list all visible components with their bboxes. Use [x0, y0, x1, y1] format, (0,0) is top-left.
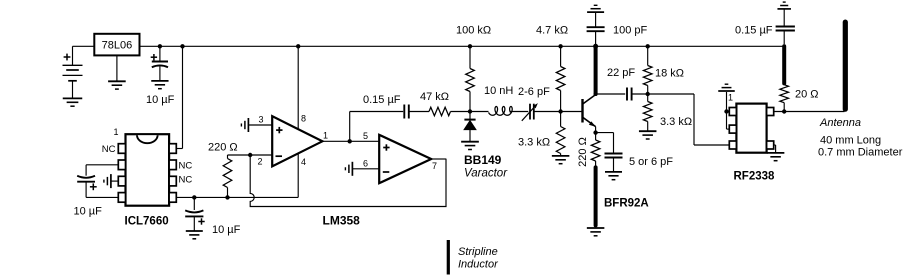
svg-text:0.15 µF: 0.15 µF: [363, 94, 401, 106]
ground RF2338 top: [718, 90, 735, 92]
node rail R4: [558, 44, 562, 48]
ground battery: [63, 97, 83, 99]
node rail R7: [646, 44, 650, 48]
node C3: [192, 195, 196, 199]
svg-text:8: 8: [301, 114, 306, 124]
U1A minus marker: [276, 155, 283, 157]
svg-text:47 kΩ: 47 kΩ: [420, 91, 449, 103]
wire emitter to C8: [596, 132, 614, 134]
ICL7660 left pins: [118, 144, 125, 154]
svg-text:RF2338: RF2338: [734, 171, 776, 183]
svg-text:NC: NC: [179, 160, 193, 171]
wire RF2338 pin gnd right: [774, 144, 776, 146]
svg-text:7: 7: [432, 161, 437, 171]
resistor R3 100k: [469, 46, 471, 68]
svg-text:1: 1: [728, 93, 733, 103]
IC U3 ICL7660 body: [126, 134, 170, 206]
IC U4 RF2338 body: [736, 104, 766, 153]
svg-text:40 mm Long: 40 mm Long: [820, 134, 881, 146]
battery B1: [72, 46, 74, 65]
wire negative supply from ICL7660 pin5: [176, 196, 298, 198]
capacitor C6 100pF: [595, 12, 597, 27]
battery plus label: [64, 56, 71, 58]
wire U1B pin6 to ground: [352, 168, 379, 170]
resistor R5 3.3k: [560, 112, 562, 127]
ground 0.15uF top: [777, 8, 791, 10]
wire C4 to R2: [409, 111, 429, 113]
trimmer capacitor C5 2-6pF: [529, 104, 531, 120]
op-amp U1B LM358: [379, 135, 431, 183]
svg-text:10 nH: 10 nH: [484, 85, 513, 97]
wire divider to RF2338 input: [693, 94, 695, 145]
ground C6 top: [587, 11, 604, 13]
wire negative rail to op-amp pin4: [297, 153, 299, 197]
svg-text:NC: NC: [102, 144, 116, 155]
wire ICL7660 pin2 to C1: [86, 164, 118, 166]
svg-text:10 µF: 10 µF: [74, 206, 103, 218]
regulator U2 78L06: [94, 34, 139, 56]
svg-text:18 kΩ: 18 kΩ: [655, 68, 684, 80]
resistor R2 47k: [429, 107, 451, 116]
C2 plus label: [151, 56, 157, 58]
svg-text:2-6 pF: 2-6 pF: [518, 86, 550, 98]
wire U1B output pin7: [431, 158, 446, 160]
svg-text:NC: NC: [179, 175, 193, 186]
wire feedback from pin7 with hop: [250, 155, 446, 207]
svg-text:5 or 6 pF: 5 or 6 pF: [629, 156, 673, 168]
svg-text:BB149: BB149: [464, 153, 502, 167]
node emitter: [593, 130, 597, 134]
svg-text:BFR92A: BFR92A: [604, 198, 649, 210]
capacitor C1 10uF: [77, 176, 95, 178]
svg-text:1: 1: [323, 131, 328, 141]
wire rail to ICL7660 pin 8: [182, 46, 184, 148]
varactor D1 BB149: [469, 112, 471, 120]
wire top supply rail: [140, 45, 785, 47]
wire R1 to op-amp pin2: [228, 154, 273, 156]
svg-text:1: 1: [113, 127, 118, 137]
ground R5: [552, 155, 570, 157]
node rail pin8: [296, 44, 300, 48]
wire R2 to node A: [451, 111, 471, 113]
node feedback pin2: [248, 153, 252, 157]
node rail-C2: [158, 44, 162, 48]
node rail stripline: [593, 44, 598, 49]
svg-text:0.7 mm Diameter: 0.7 mm Diameter: [818, 147, 903, 159]
transistor Q1 BFR92A: [581, 99, 583, 123]
node A varactor node: [468, 109, 472, 113]
U1B minus marker: [383, 171, 390, 173]
capacitor C4 0.15uF: [403, 105, 405, 119]
ground emitter stripline: [587, 227, 605, 229]
wire emitter node: [595, 127, 597, 133]
svg-text:10 µF: 10 µF: [146, 94, 175, 106]
wire regulator ground pin: [116, 55, 118, 81]
svg-text:220 Ω: 220 Ω: [577, 137, 589, 167]
wire U1A pin8 to rail: [297, 46, 299, 129]
wire RF2338 output pin: [774, 111, 845, 113]
ground R8: [639, 130, 657, 132]
U1A plus marker: [276, 129, 282, 131]
svg-text:22 pF: 22 pF: [607, 67, 635, 79]
svg-text:78L06: 78L06: [102, 40, 133, 52]
svg-text:4.7 kΩ: 4.7 kΩ: [536, 25, 568, 37]
node R1 bottom: [225, 195, 229, 199]
svg-text:100 pF: 100 pF: [613, 25, 648, 37]
U1B plus marker: [383, 147, 389, 149]
inductor L1 10nH: [470, 111, 489, 113]
node base divider: [558, 109, 562, 113]
resistor R1 220ohm: [227, 188, 229, 198]
wire C7 to divider node: [632, 93, 694, 95]
wire ICL7660 pin3 to ground: [111, 180, 118, 182]
svg-text:220 Ω: 220 Ω: [208, 142, 238, 154]
svg-text:100 kΩ: 100 kΩ: [456, 25, 491, 37]
svg-text:3: 3: [258, 114, 263, 124]
svg-text:4: 4: [301, 157, 306, 167]
resistor R8 3.3k: [647, 94, 649, 102]
svg-text:20 Ω: 20 Ω: [795, 89, 819, 101]
node U1A output: [348, 139, 352, 143]
ground ICL7660 pin3: [110, 174, 112, 188]
resistor R4 4.7k: [560, 46, 562, 66]
capacitor C8 5or6pF: [605, 153, 623, 155]
ground C8: [605, 171, 622, 173]
wire C1 to ICL7660 pin4: [85, 182, 87, 198]
stripline legend bar: [447, 240, 450, 275]
RF2338 left pins: [729, 108, 736, 116]
svg-text:Stripline: Stripline: [458, 246, 498, 258]
stripline inductor output: [782, 46, 786, 83]
wire U1A output to U1B input: [322, 140, 379, 142]
resistor R9 20ohm: [780, 85, 789, 103]
C1 plus label: [90, 186, 97, 188]
capacitor C7 22pF: [626, 88, 628, 101]
svg-text:2: 2: [257, 157, 262, 167]
ground C2: [151, 80, 168, 82]
ground C3: [186, 230, 203, 232]
node rail R3: [468, 44, 472, 48]
svg-text:ICL7660: ICL7660: [125, 215, 169, 227]
ICL7660 right pins: [169, 144, 176, 154]
svg-text:5: 5: [363, 131, 368, 141]
wire collector to C7: [596, 93, 626, 95]
antenna: [843, 22, 848, 109]
capacitor C2 10uF: [159, 46, 161, 61]
svg-text:10 µF: 10 µF: [212, 224, 241, 236]
svg-text:Antenna: Antenna: [819, 117, 861, 129]
node divider: [646, 92, 650, 96]
wire L1 to trimmer: [510, 111, 528, 113]
node rail-ICL7660 supply: [180, 44, 184, 48]
svg-text:6: 6: [363, 159, 368, 169]
op-amp U1A LM358: [272, 116, 322, 166]
ground RF2338 right: [767, 152, 785, 154]
RF2338 right pins: [767, 108, 774, 116]
svg-text:LM358: LM358: [323, 214, 361, 228]
node antenna feed: [782, 109, 786, 113]
resistor R6 220ohm emitter: [595, 133, 597, 140]
svg-text:Inductor: Inductor: [458, 259, 499, 271]
resistor R7 18k: [647, 46, 649, 65]
wire U1A output riser: [349, 112, 351, 142]
ground U1B pin6: [351, 162, 353, 176]
wire battery to regulator: [73, 45, 95, 47]
wire trimmer to R4 node: [534, 111, 583, 113]
ground varactor: [461, 141, 479, 143]
wire U1A pin3 to ground: [248, 124, 272, 126]
ground U1A pin3: [247, 118, 249, 132]
stripline inductor emitter: [594, 167, 598, 225]
svg-text:0.15 µF: 0.15 µF: [735, 25, 773, 37]
svg-text:3.3 kΩ: 3.3 kΩ: [660, 116, 692, 128]
capacitor C3 10uF: [193, 197, 195, 210]
svg-text:3.3 kΩ: 3.3 kΩ: [518, 137, 550, 149]
stripline inductor collector: [594, 46, 598, 94]
ground regulator: [108, 80, 126, 82]
svg-text:Varactor: Varactor: [464, 168, 508, 180]
capacitor C9 0.15uF: [783, 9, 785, 26]
wire RF2338 pins 1-2 ground: [727, 111, 730, 113]
